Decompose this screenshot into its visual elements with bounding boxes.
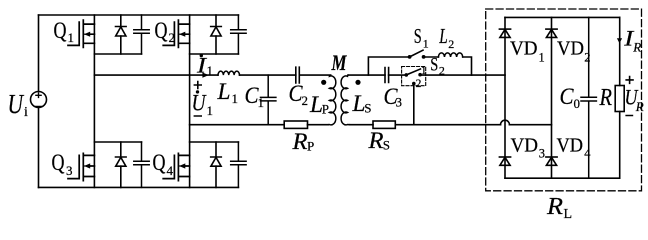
svg-text:S: S: [414, 24, 422, 48]
diode VD2: [546, 29, 557, 37]
label C3: [384, 84, 403, 110]
svg-text:VD: VD: [557, 135, 584, 157]
label Q1: [54, 18, 75, 45]
wire rectifier bottom rail: [505, 177, 620, 179]
capacitor (Q4 snubber): [231, 142, 246, 187]
resistor RP: [284, 121, 307, 128]
wire secondary top: [348, 74, 505, 76]
switch S1: [408, 50, 426, 59]
label U1 with polarity: [192, 90, 214, 118]
svg-text:1: 1: [258, 95, 265, 110]
svg-text:L: L: [564, 207, 573, 222]
label VD2: [557, 38, 591, 65]
svg-text:M: M: [331, 50, 348, 75]
svg-text:i: i: [24, 105, 28, 120]
svg-text:VD: VD: [511, 135, 539, 157]
inductor L2: [438, 53, 462, 57]
svg-text:2: 2: [416, 78, 422, 90]
capacitor (Q2 snubber): [231, 15, 246, 54]
label Ui: [8, 89, 29, 120]
label VD1: [510, 38, 545, 65]
label UR with polarity: [625, 85, 644, 114]
label L1: [216, 79, 238, 106]
wire Q1 cell bottom: [94, 53, 141, 55]
svg-text:2: 2: [302, 93, 309, 108]
wire right bridge leg: [189, 15, 191, 187]
label S2: [430, 54, 445, 77]
label L2: [439, 24, 455, 51]
wire rectifier right leg: [551, 17, 553, 178]
wire top rail: [39, 14, 239, 16]
wire Q3 cell top: [94, 141, 141, 143]
label S1: [414, 24, 429, 51]
polarity dot LP: [321, 80, 326, 85]
capacitor (Q3 snubber): [134, 142, 149, 187]
capacitor C0: [581, 17, 596, 178]
label I1: [196, 53, 213, 79]
wire bottom rail: [39, 186, 239, 188]
wire inverter output top (wire1): [94, 74, 330, 76]
label R: [599, 85, 613, 111]
svg-text:1: 1: [421, 65, 427, 77]
capacitor (Q1 snubber): [134, 15, 149, 54]
resistor R (load): [615, 86, 624, 112]
capacitor C1: [261, 75, 276, 125]
label contact 2: [416, 78, 422, 90]
svg-text:1: 1: [207, 103, 214, 118]
label RL: [546, 194, 572, 222]
svg-text:R: R: [635, 99, 644, 114]
svg-text:P: P: [307, 139, 314, 154]
wire left source vertical: [38, 15, 40, 187]
svg-text:U: U: [8, 89, 25, 119]
svg-text:1: 1: [232, 91, 239, 106]
diode D2 (Q2 body diode): [211, 15, 222, 54]
coupled coil LS (secondary): [341, 75, 350, 125]
label LP: [309, 92, 329, 117]
svg-text:VD: VD: [510, 38, 538, 60]
svg-text:R: R: [599, 85, 613, 111]
diode D3 (Q3 body diode): [116, 142, 127, 187]
svg-text:Q: Q: [52, 150, 65, 175]
label LS: [351, 91, 371, 116]
wire secondary bottom: [350, 124, 552, 126]
svg-text:3: 3: [66, 163, 73, 178]
wire hop over left rectifier leg: [501, 120, 510, 125]
svg-text:L: L: [439, 24, 448, 48]
svg-text:1: 1: [539, 51, 545, 65]
diode VD3: [499, 157, 510, 165]
svg-text:2: 2: [169, 30, 176, 45]
polarity dot LS: [355, 80, 360, 85]
svg-text:R: R: [632, 40, 641, 55]
label VD3: [511, 135, 545, 161]
capacitor C2: [296, 67, 300, 83]
wire left bridge leg: [93, 15, 95, 187]
wire load branch: [619, 17, 621, 178]
switch S2 (SPDT in dashed box): [402, 67, 426, 86]
transistor Q4: [163, 153, 189, 180]
svg-text:R: R: [291, 129, 307, 154]
diode D4 (Q4 body diode): [211, 142, 222, 187]
label M (mutual inductance): [331, 50, 348, 75]
wire rectifier left leg: [504, 17, 506, 178]
label Q3: [52, 150, 73, 178]
svg-text:P: P: [322, 102, 329, 117]
current arrow IR: [617, 38, 622, 43]
label RS: [367, 128, 390, 153]
svg-text:Q: Q: [153, 150, 166, 175]
svg-text:Q: Q: [54, 18, 67, 43]
current arrow I1: [202, 73, 208, 78]
diode D1 (Q1 body diode): [116, 15, 127, 54]
label C1: [245, 83, 265, 110]
label C0: [560, 84, 581, 111]
svg-text:2: 2: [584, 51, 590, 65]
svg-text:2: 2: [439, 64, 445, 78]
svg-text:1: 1: [207, 63, 214, 78]
resistor RS: [373, 121, 395, 128]
coupled coil LP (primary): [328, 75, 336, 125]
voltage source Ui: [31, 92, 47, 108]
svg-text:L: L: [216, 79, 230, 104]
capacitor C3: [385, 68, 389, 83]
svg-text:U: U: [192, 91, 207, 116]
wire S2 position-2 down branch: [413, 84, 415, 125]
wire Q4 cell top: [190, 141, 239, 143]
svg-text:Q: Q: [155, 18, 168, 43]
svg-text:1: 1: [68, 30, 75, 45]
svg-text:C: C: [560, 84, 575, 109]
transistor Q2: [163, 20, 189, 47]
svg-text:VD: VD: [557, 38, 584, 60]
svg-text:1: 1: [423, 37, 429, 51]
transistor Q1: [68, 20, 94, 47]
svg-text:4: 4: [167, 163, 174, 178]
svg-text:3: 3: [396, 95, 403, 110]
svg-text:R: R: [367, 128, 383, 153]
label C2: [289, 81, 309, 108]
svg-text:S: S: [383, 138, 390, 153]
wire inverter output bottom (wire2): [190, 124, 329, 126]
svg-text:2: 2: [448, 37, 454, 51]
diode VD1: [499, 29, 510, 37]
svg-text:3: 3: [539, 147, 545, 161]
transistor Q3: [68, 153, 94, 180]
wire Q2 cell bottom: [190, 53, 239, 55]
svg-text:S: S: [430, 54, 438, 75]
dashed box RL (rectifier + load): [486, 9, 642, 191]
label Q2: [155, 18, 176, 45]
label Q4: [153, 150, 174, 178]
inductor L1: [218, 71, 240, 75]
label RP: [291, 129, 314, 154]
label contact 1: [421, 65, 427, 77]
svg-text:4: 4: [584, 147, 591, 161]
wire S1 branch: [368, 57, 471, 75]
svg-text:S: S: [364, 101, 371, 116]
wire rectifier top rail: [505, 16, 620, 18]
svg-text:R: R: [546, 194, 563, 220]
svg-text:0: 0: [574, 96, 581, 111]
diode VD4: [546, 157, 557, 165]
label IR: [623, 26, 641, 55]
label VD4: [557, 135, 592, 161]
